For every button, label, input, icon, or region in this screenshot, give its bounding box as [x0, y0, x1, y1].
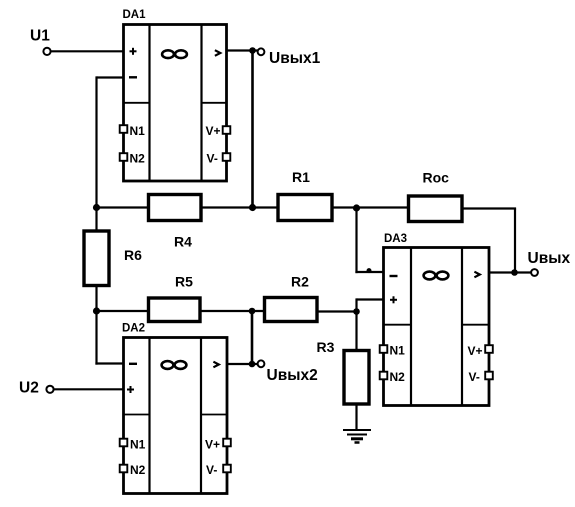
op-amp DA2 body — [124, 338, 228, 494]
svg-text:R1: R1 — [292, 169, 310, 185]
svg-text:V-: V- — [206, 463, 217, 477]
wire U1 input to DA1 + — [51, 50, 124, 52]
op-amp DA1 plus input marker — [130, 48, 137, 55]
wire R2 right to DA3 plus node — [317, 310, 357, 312]
wire into DA2 minus input — [95, 362, 123, 364]
svg-text:V-: V- — [207, 152, 218, 166]
svg-text:V-: V- — [469, 370, 480, 384]
op-amp DA2 plus input marker — [127, 386, 134, 393]
junction node A (R4 / R6 / DA1 minus) — [93, 204, 100, 211]
svg-text:N2: N2 — [130, 152, 146, 166]
terminal Uvyh — [531, 269, 538, 276]
terminal U1 — [43, 48, 50, 55]
wire Roc corner vertical down to output node — [514, 209, 516, 273]
resistor R1 — [278, 195, 332, 221]
junction R4 / R1 / DA1 output — [249, 204, 256, 211]
resistor R4 — [149, 195, 202, 221]
wire horizontal into DA3 minus input — [355, 271, 383, 273]
wire DA1 minus input to left — [97, 76, 124, 78]
junction R1 / Roc / DA3 minus — [353, 204, 360, 211]
svg-text:Uвых1: Uвых1 — [269, 50, 321, 67]
resistor Roc — [409, 196, 463, 222]
op-amp DA3 body — [384, 248, 490, 406]
op-amp DA2 pin N2 — [120, 463, 146, 477]
wire U2 input to DA2 plus — [53, 388, 124, 390]
svg-text:R6: R6 — [124, 247, 142, 263]
junction node B (R5 / R6 / DA2 minus) — [93, 307, 100, 314]
wire vertical DA1 minus down to R6 top — [95, 76, 97, 231]
op-amp DA2 minus input marker — [129, 363, 137, 365]
op-amp DA1 minus input marker — [129, 76, 137, 78]
junction Roc / DA3 output — [511, 269, 518, 276]
svg-text:V+: V+ — [468, 344, 483, 358]
op-amp DA3 output marker — [474, 272, 479, 278]
svg-text:R4: R4 — [174, 234, 192, 250]
svg-text:R2: R2 — [291, 274, 309, 290]
wire R3 bottom to ground — [355, 404, 357, 430]
wire vertical from R5/R2 junction down to DA2 output — [251, 311, 254, 365]
wire R5 right to R2 left — [200, 310, 265, 312]
op-amp DA2 output marker — [213, 362, 218, 368]
op-amp DA3 pin N1 — [380, 344, 405, 358]
svg-text:N1: N1 — [130, 438, 146, 452]
svg-text:N1: N1 — [130, 124, 146, 138]
svg-text:N2: N2 — [390, 370, 406, 384]
svg-text:R3: R3 — [317, 339, 335, 355]
svg-text:Roc: Roc — [423, 170, 450, 186]
svg-text:DA1: DA1 — [123, 9, 147, 21]
op-amp DA1 pin N2 — [120, 152, 145, 166]
op-amp DA1 pin V+ — [206, 124, 231, 138]
resistor R5 — [149, 298, 201, 322]
svg-text:DA3: DA3 — [384, 233, 407, 245]
op-amp DA3 pin V+ — [468, 344, 493, 358]
wire DA3 plus vertical down through R2 node to R3 top — [355, 298, 357, 351]
svg-text:N1: N1 — [390, 344, 406, 358]
wire Roc right to corner — [462, 207, 516, 209]
op-amp DA2 pin N1 — [120, 438, 146, 452]
wire DA1 output to Uvyh1 terminal — [227, 49, 259, 51]
svg-text:Uвых2: Uвых2 — [267, 367, 318, 384]
resistor R6 — [84, 231, 109, 286]
terminal Uvyh2 — [258, 360, 265, 367]
op-amp DA2 pin V- — [206, 463, 231, 477]
svg-text:V+: V+ — [205, 438, 220, 452]
op-amp DA3 minus input marker — [390, 275, 398, 277]
svg-text:U2: U2 — [19, 380, 39, 397]
op-amp DA1 pin V- — [207, 152, 231, 166]
svg-text:DA2: DA2 — [122, 323, 145, 335]
op-amp DA1 body — [124, 25, 227, 182]
wire DA3 output to Uvyh terminal — [489, 271, 532, 273]
op-amp DA3 plus input marker — [390, 296, 397, 303]
junction DA1 output — [249, 47, 256, 54]
wire R1 right to Roc left — [332, 206, 409, 208]
wire DA2 output to Uvyh2 terminal — [227, 363, 258, 365]
terminal U2 — [46, 386, 53, 393]
wire node A to R4 left — [97, 206, 149, 208]
svg-text:V+: V+ — [206, 124, 221, 138]
junction DA2 output — [249, 361, 256, 368]
resistor R3 — [344, 351, 369, 405]
junction R5 / R2 / DA2 output — [249, 308, 256, 315]
resistor R2 — [265, 298, 318, 322]
op-amp DA3 pin N2 — [380, 370, 405, 384]
svg-text:N2: N2 — [130, 463, 146, 477]
wire node B vertical from R1/Roc junction down to DA3 minus — [355, 208, 357, 274]
op-amp DA2 pin V+ — [205, 438, 231, 452]
op-amp DA1 pin N1 — [120, 124, 145, 138]
op-amp DA3 infinity gain symbol — [424, 272, 449, 280]
op-amp DA1 output marker — [215, 50, 220, 56]
wire R4 right to R1 left — [201, 206, 278, 208]
op-amp DA3 pin V- — [469, 370, 493, 384]
terminal Uvyh1 — [258, 48, 265, 55]
ground — [343, 430, 371, 443]
wire node B2 to R5 left — [97, 310, 149, 312]
svg-text:R5: R5 — [175, 274, 193, 290]
wire DA3 plus input horizontal — [357, 298, 384, 300]
op-amp DA1 infinity gain symbol — [162, 50, 187, 58]
junction R2 / R3 / DA3 plus — [353, 308, 360, 315]
op-amp DA2 infinity gain symbol — [162, 361, 187, 369]
svg-text:U1: U1 — [30, 28, 50, 45]
svg-text:Uвых: Uвых — [528, 250, 571, 267]
wire R6 bottom vertical to DA2 minus row — [95, 286, 97, 365]
junction dot on DA3 minus wire — [367, 268, 372, 273]
wire DA1 output vertical down to R4 row — [251, 51, 254, 209]
